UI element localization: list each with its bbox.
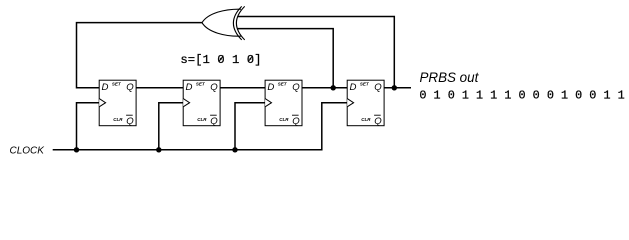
junction dot clock-FF1 <box>74 147 79 152</box>
svg-text:CLOCK: CLOCK <box>10 146 46 157</box>
svg-text:CLR: CLR <box>361 117 371 122</box>
wire clock riser to FF2 <box>159 103 183 150</box>
slash of second zero in seed <box>249 56 253 62</box>
slash of first zero in seed <box>219 56 223 62</box>
junction dot FF4 Q tap <box>392 85 397 90</box>
flip-flop U5 (D flip-flop 4) <box>347 80 384 127</box>
svg-text:D: D <box>102 82 109 93</box>
wire clock riser to FF1 <box>77 103 100 150</box>
svg-text:SET: SET <box>360 81 370 86</box>
svg-text:Q: Q <box>292 82 300 93</box>
svg-text:0 1 0 1 1 1 1 0 0 0 1 0 0 1 1: 0 1 0 1 1 1 1 0 0 0 1 0 0 1 1 <box>419 89 624 103</box>
wire FF1 Q to FF2 D <box>135 87 183 89</box>
svg-text:CLR: CLR <box>113 117 123 122</box>
flip-flop U4 (D flip-flop 3) <box>265 80 302 127</box>
svg-text:SET: SET <box>112 81 122 86</box>
wire feedback from XOR output to FF1 D input <box>77 23 203 88</box>
flip-flop U3 (D flip-flop 2) <box>183 80 220 127</box>
svg-text:Q: Q <box>210 82 218 93</box>
svg-text:SET: SET <box>278 81 288 86</box>
wire XOR bottom input from FF3 Q <box>238 29 334 88</box>
junction dot clock-FF3 <box>232 147 237 152</box>
junction dot clock-FF2 <box>156 147 161 152</box>
svg-text:Q: Q <box>292 116 300 127</box>
wire clock bus <box>53 103 348 150</box>
svg-text:D: D <box>267 82 274 93</box>
svg-text:D: D <box>350 82 357 93</box>
xor gate U1 (pointing left) <box>202 6 245 40</box>
svg-text:Q: Q <box>374 82 382 93</box>
svg-text:D: D <box>186 82 193 93</box>
svg-text:PRBS out: PRBS out <box>420 70 480 85</box>
wire FF3 Q to FF4 D <box>302 87 348 89</box>
svg-text:Q: Q <box>126 116 134 127</box>
svg-text:CLR: CLR <box>279 117 289 122</box>
svg-text:CLR: CLR <box>197 117 207 122</box>
junction dot FF3 Q tap <box>331 85 336 90</box>
svg-text:Q: Q <box>126 82 134 93</box>
svg-text:Q: Q <box>374 116 382 127</box>
wire clock riser to FF3 <box>235 103 265 150</box>
wire FF4 Q output to PRBS out <box>384 87 411 89</box>
svg-text:Q: Q <box>210 116 218 127</box>
wire FF2 Q to FF3 D <box>220 87 265 89</box>
wire XOR top input from FF4 Q <box>237 17 394 88</box>
flip-flop U2 (D flip-flop 1) <box>99 80 136 127</box>
svg-text:SET: SET <box>196 81 206 86</box>
